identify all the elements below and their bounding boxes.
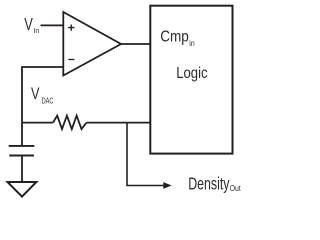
op-amp - symbol <box>68 59 74 61</box>
wire Vin to op-amp + input <box>41 24 64 26</box>
wire node to capacitor <box>21 123 23 145</box>
svg-text:Logic: Logic <box>176 65 207 82</box>
wire capacitor to ground <box>21 156 23 183</box>
wire node to resistor <box>22 122 53 124</box>
ground <box>8 182 37 197</box>
logic box <box>150 6 232 154</box>
label Density_Out <box>188 173 241 193</box>
op-amp + symbol <box>68 25 74 31</box>
svg-text:in: in <box>189 39 194 48</box>
wire op-amp - input <box>22 67 63 123</box>
wire resistor to logic box <box>87 122 151 124</box>
label Cmp_in <box>160 28 195 48</box>
svg-text:V: V <box>31 84 40 103</box>
label V_In <box>24 15 39 35</box>
resistor R1 <box>53 116 87 130</box>
capacitor C1 top plate <box>9 145 35 147</box>
capacitor C1 bottom plate <box>9 155 34 157</box>
wire op-amp output to logic box <box>121 43 150 45</box>
wire junction down to output arrow <box>127 123 164 186</box>
svg-text:Density: Density <box>188 173 229 193</box>
label V_DAC <box>31 84 54 105</box>
op-amp U1 <box>63 12 121 76</box>
svg-text:DAC: DAC <box>42 96 54 106</box>
svg-text:In: In <box>34 26 40 35</box>
svg-text:Out: Out <box>230 184 242 193</box>
svg-text:V: V <box>24 15 33 34</box>
arrowhead Density out <box>163 182 171 189</box>
svg-text:Cmp: Cmp <box>160 28 189 45</box>
